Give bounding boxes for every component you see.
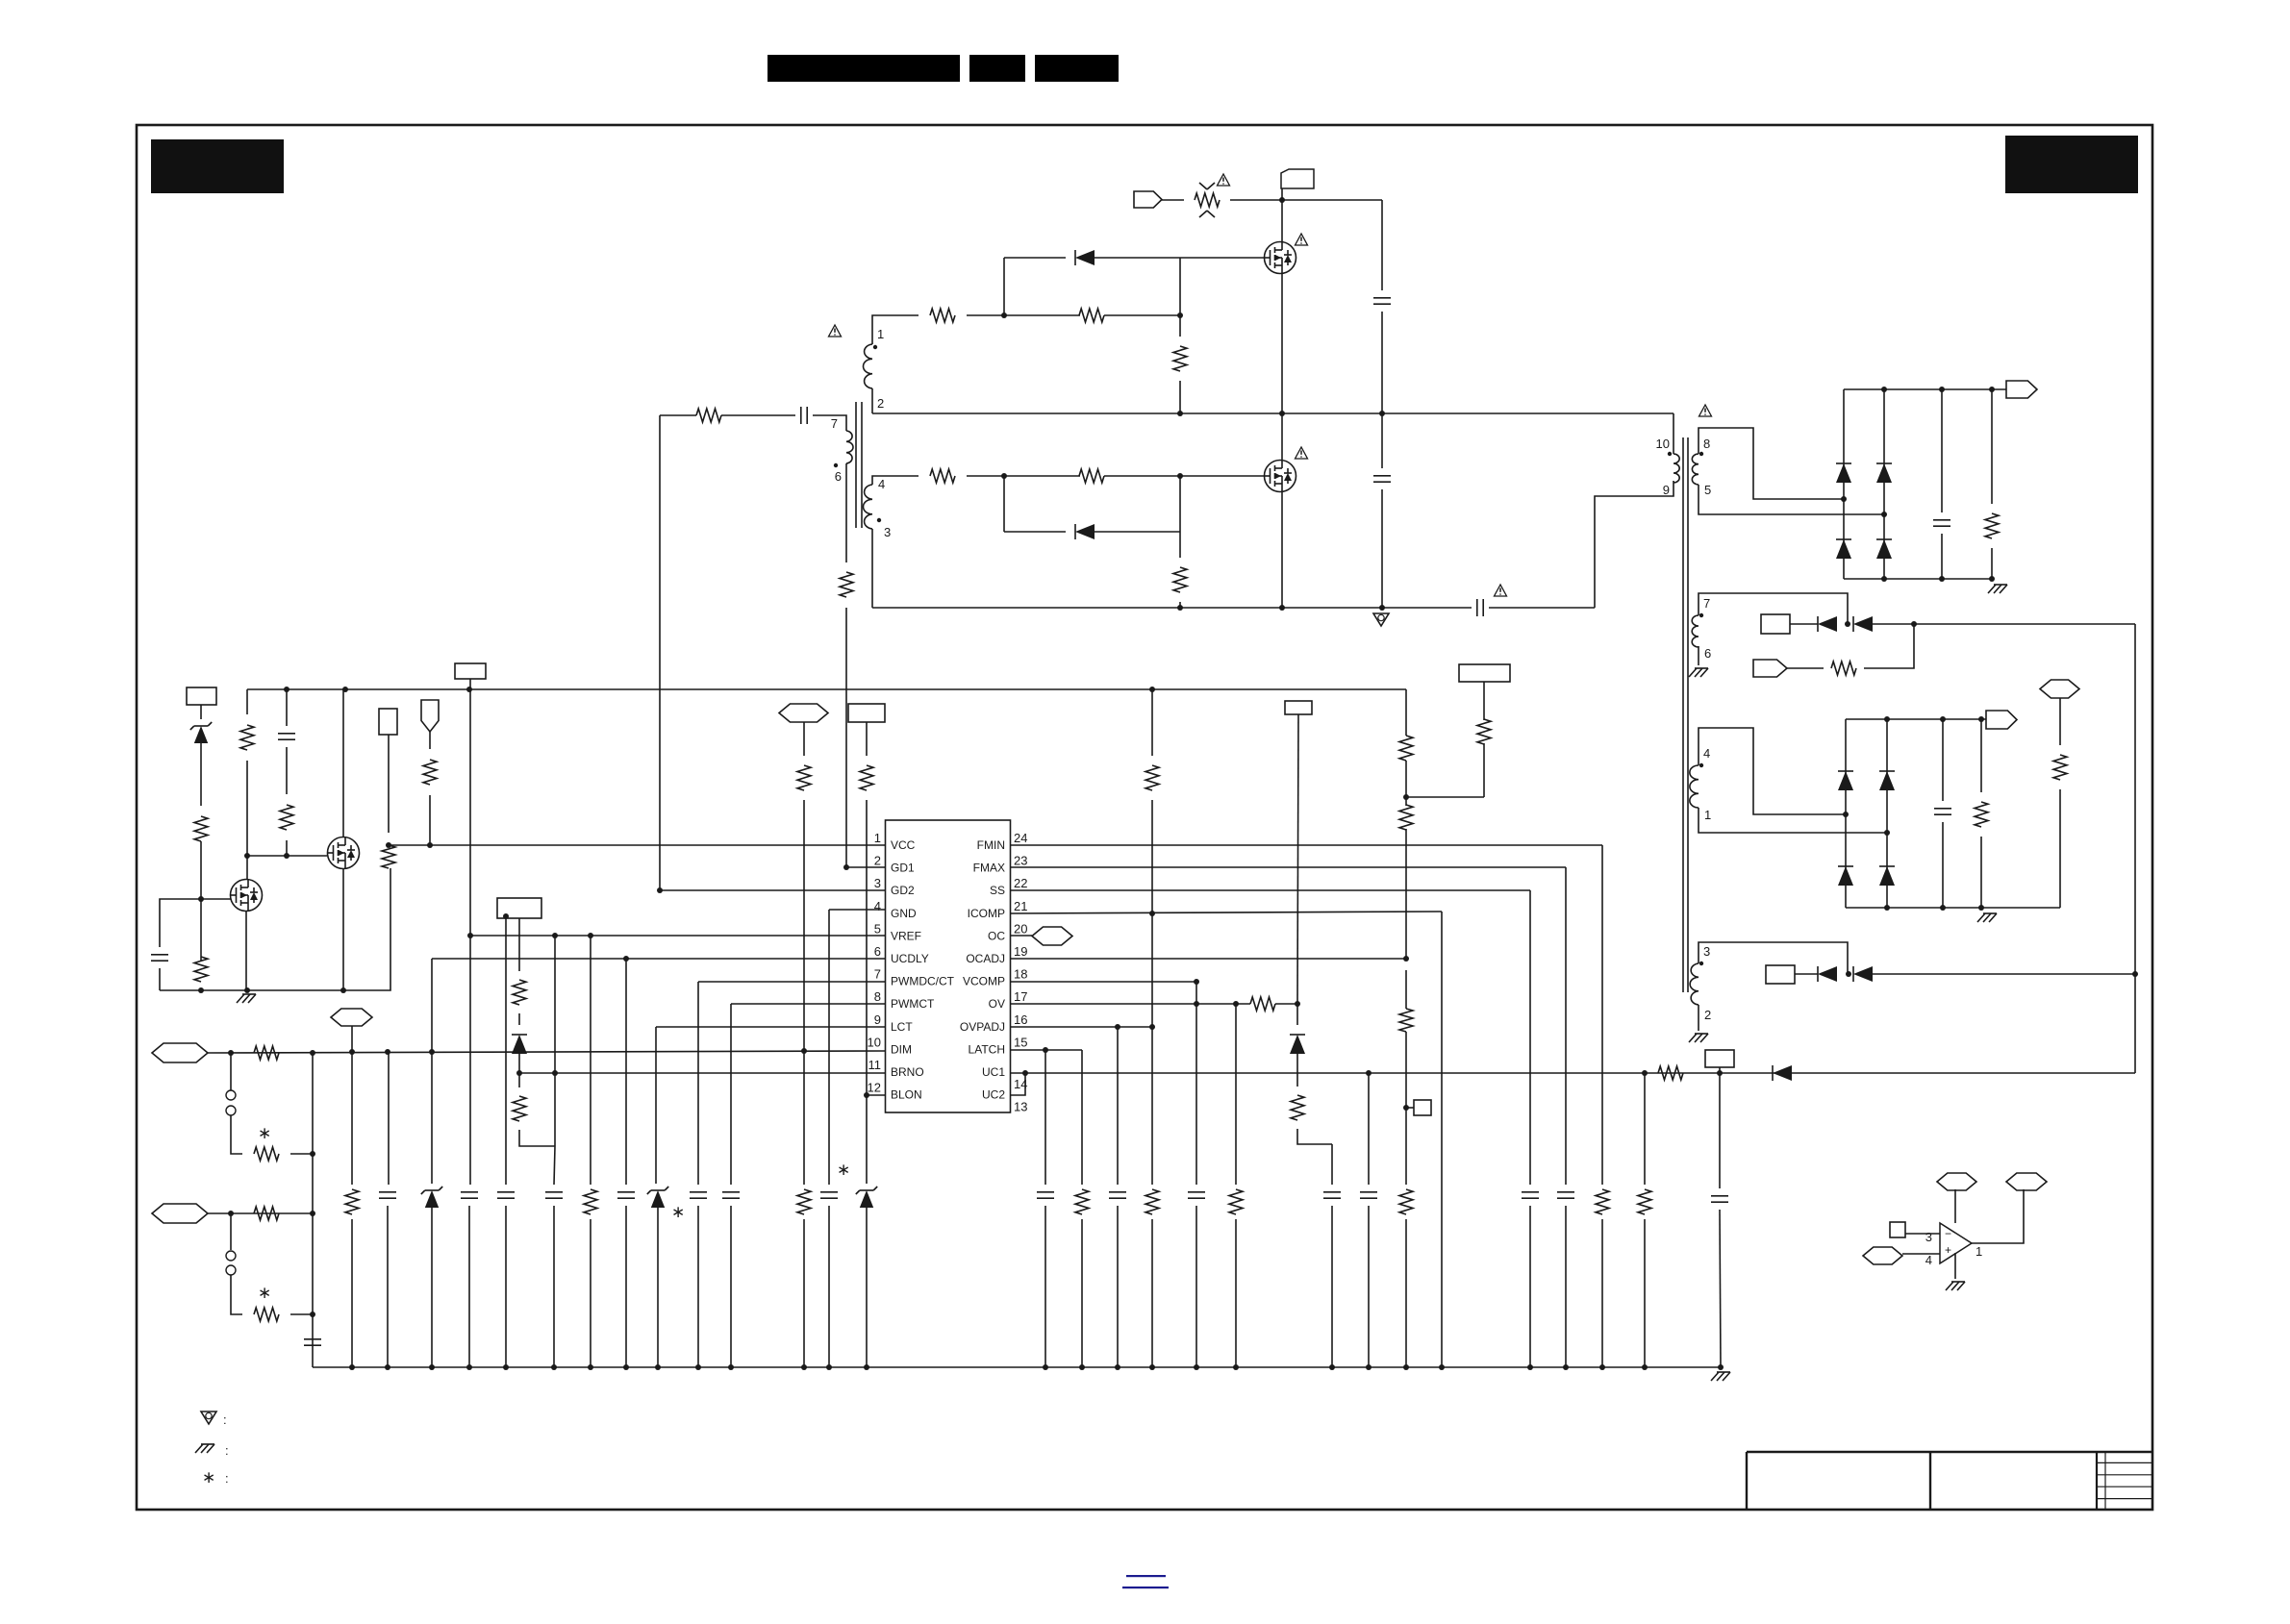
svg-text:4: 4 (1925, 1253, 1932, 1267)
wire Q2 source down (1281, 492, 1283, 608)
revision table (2096, 1452, 2098, 1509)
resistor R col1198 bottom (1151, 1027, 1153, 1185)
svg-text:GD2: GD2 (891, 884, 915, 897)
wire w2 to ground (1698, 1005, 1699, 1031)
wire dim col to R bottom (803, 1051, 805, 1185)
connector box VIN tag (1281, 169, 1314, 188)
svg-text:UCDLY: UCDLY (891, 952, 929, 965)
svg-text:2: 2 (877, 396, 884, 411)
resistor R blon top (860, 765, 873, 790)
capacitor C out2 (1942, 719, 1944, 801)
connector hexagon opamp plus (1863, 1247, 1902, 1264)
wire col1385 (1331, 1144, 1333, 1185)
T2 core (1682, 437, 1684, 992)
connector hexagon vref tag (331, 1009, 372, 1026)
resistor R col403 below vcc row (382, 845, 395, 868)
UC2 jog (1011, 1073, 1025, 1095)
OV row after resistor (1275, 1003, 1297, 1005)
wire opamp plus (1902, 1253, 1940, 1255)
bottom rail of vcc section (160, 868, 390, 990)
wire gate wire to mosfet (1180, 257, 1264, 259)
right feedback bus (2134, 624, 2136, 1073)
resistor R vcc1 (194, 816, 208, 841)
svg-text:LATCH: LATCH (969, 1042, 1005, 1056)
wire Q2 drain up (1281, 413, 1283, 460)
svg-text:BRNO: BRNO (891, 1065, 924, 1079)
svg-text:OCADJ: OCADJ (966, 952, 1005, 965)
svg-text:15: 15 (1014, 1035, 1027, 1049)
svg-text:4: 4 (878, 477, 885, 491)
legend power ground symbol (201, 1412, 216, 1424)
svg-text:GD1: GD1 (891, 862, 915, 875)
resistor R vcc2 (194, 957, 208, 982)
svg-text:VREF: VREF (891, 929, 921, 942)
resistor R dim bottom (797, 1189, 811, 1214)
capacitor C snub2 (1381, 413, 1383, 468)
wire opamp minus (1905, 1233, 1940, 1235)
brno block col540 resistor top (518, 918, 520, 971)
legend chassis ground symbol (195, 1444, 203, 1453)
wire col1423 down (1368, 1073, 1370, 1185)
bridge1 bottom rail (1844, 578, 1992, 580)
svg-text:OV: OV (989, 997, 1005, 1011)
svg-text:LCT: LCT (891, 1020, 913, 1034)
svg-text:∗: ∗ (202, 1468, 215, 1487)
wire T2 pin9 to dc blocking cap (1595, 481, 1673, 608)
resistor R col1710 (1638, 1189, 1651, 1214)
wire resistor up to diode out (1864, 624, 1914, 668)
svg-text:5: 5 (874, 921, 881, 936)
chassis ground opamp (1946, 1282, 1953, 1290)
capacitor C gd series (800, 407, 802, 424)
capacitor C col403 (379, 1191, 396, 1193)
svg-text:10: 10 (1656, 437, 1670, 451)
svg-text:∗: ∗ (837, 1161, 850, 1179)
diode D g1 antiparallel (1004, 257, 1066, 259)
chassis ground vcc section (237, 994, 244, 1003)
redaction bar title 1 (768, 55, 960, 82)
chassis ground at bus end (1711, 1372, 1719, 1381)
warning triangle Q1 (1296, 234, 1308, 245)
SS row (1011, 889, 1530, 891)
wire col1666 down (1601, 845, 1603, 1185)
wire col298 to gate row (286, 840, 288, 856)
svg-text:20: 20 (1014, 921, 1027, 936)
wire col1499 down (1441, 912, 1443, 1367)
resistor R col1462 second (1399, 805, 1413, 830)
capacitor C col1628 (1557, 1191, 1574, 1193)
resistor R col1462 top (1399, 736, 1413, 761)
bridge1 top rail (1844, 388, 2006, 390)
svg-text:7: 7 (874, 967, 881, 982)
chassis ground bridge1 (1988, 585, 1996, 593)
switch contacts 2 (230, 1213, 232, 1250)
svg-text:SS: SS (990, 884, 1005, 897)
title block (1747, 1451, 2152, 1453)
capacitor C col577 (545, 1191, 563, 1193)
svg-text:12: 12 (868, 1081, 881, 1095)
wire GND col down (828, 910, 830, 1185)
svg-text:FMIN: FMIN (977, 838, 1005, 852)
svg-text:BLON: BLON (891, 1088, 922, 1102)
resistor R aux ocp (1477, 719, 1491, 744)
wire vref tag down (351, 1026, 353, 1051)
VREF rail top (247, 688, 1406, 690)
switch contacts 1 (230, 1053, 232, 1090)
aux1 double diode (1790, 623, 1818, 625)
wire sec43 bottom to rail (871, 529, 873, 608)
OV row (1011, 1003, 1250, 1005)
connector box VREF rail tag (455, 663, 486, 679)
connector box aux ocp (1459, 664, 1510, 682)
wire to R* 2 (231, 1275, 242, 1314)
resistor R col1349 (1296, 1054, 1298, 1087)
wire node C down to diode row 2 (1003, 476, 1005, 532)
svg-text:2: 2 (1704, 1008, 1711, 1022)
wire col1125 down (1081, 1050, 1083, 1185)
wire to node C (967, 475, 1080, 477)
capacitor C out1 (1941, 389, 1943, 512)
svg-text:9: 9 (1663, 483, 1670, 497)
resistor R* 1 (254, 1147, 279, 1161)
wire col403 down (388, 735, 390, 833)
capacitor C col1423 (1360, 1191, 1377, 1193)
warning triangle Q2 (1296, 447, 1308, 459)
resistor R pwm2 (254, 1207, 279, 1220)
svg-text:10: 10 (868, 1035, 881, 1049)
wire cap to rail (159, 968, 161, 990)
wire cap to T2 pin9 corner (1489, 607, 1595, 609)
svg-text:VCC: VCC (891, 838, 916, 852)
wire col403 to cap (388, 1052, 390, 1185)
capacitor C col1385 (1323, 1191, 1341, 1193)
wire fuse to node (1230, 199, 1382, 201)
wire opamp gnd (1954, 1253, 1956, 1279)
resistor R col298 (280, 805, 293, 830)
mosfet Q small 1 (231, 880, 263, 912)
resistor R col366 (351, 1051, 353, 1185)
gate row Q2 (247, 855, 327, 857)
drawing frame border (137, 125, 2152, 1510)
svg-text:ICOMP: ICOMP (968, 907, 1005, 920)
connector PWM2 tag (152, 1204, 208, 1223)
svg-text:1: 1 (1975, 1244, 1982, 1259)
connector hexagon sense (2040, 680, 2079, 698)
wire GD2 loop vertical (659, 415, 661, 890)
zener Z col445 (431, 959, 433, 1184)
svg-text:8: 8 (1703, 437, 1710, 451)
wire sec85 top (1699, 428, 1844, 499)
wire col1285 down (1235, 1004, 1237, 1185)
wire PWM2 row (208, 1212, 313, 1214)
svg-text:1: 1 (874, 831, 881, 845)
capacitor on pwm bus column (304, 1338, 321, 1340)
wire to aux box branch (1406, 796, 1484, 798)
svg-text:FMAX: FMAX (973, 862, 1005, 875)
resistor R out2 (1980, 719, 1982, 792)
connector pentagon out2 (1986, 711, 2017, 729)
UCDLY row (432, 958, 885, 960)
wire node to cap column (1381, 200, 1383, 290)
resistor R aux1 (1831, 662, 1856, 675)
wire to gate Q2 (1104, 475, 1264, 477)
bridge2 diodes (1845, 719, 1847, 908)
wire col1710 down (1644, 1073, 1646, 1185)
aux2 double diode (1795, 973, 1818, 975)
connector hexagon dim tag (779, 704, 828, 722)
wire col1162 down (1117, 1027, 1119, 1185)
wire diode row to gate node (1179, 258, 1181, 315)
IC U1 controller (886, 820, 1011, 1112)
connector box opamp minus (1890, 1222, 1905, 1237)
wire box blon to resistor (866, 722, 868, 756)
zener ZD vcc (200, 705, 202, 719)
wire blon col to BLON row (866, 800, 868, 1095)
wire rail to R col257 (246, 689, 248, 714)
svg-text:21: 21 (1014, 899, 1027, 913)
wire VCC row (389, 844, 885, 846)
wire col726 down (697, 982, 699, 1185)
VCOMP row (1011, 981, 1196, 983)
wire PWM1 row (208, 1051, 885, 1053)
mid rail (872, 412, 1673, 414)
svg-text:OC: OC (988, 929, 1005, 942)
wire gd loop top (660, 414, 696, 416)
wire to R* 1 (231, 1115, 242, 1154)
rail corner to OCADJ col (1405, 689, 1407, 736)
resistor R pwm1 (254, 1046, 279, 1060)
FMIN row (1011, 844, 1602, 846)
wire fb cap column (1719, 1073, 1721, 1188)
resistor R col1666 (1596, 1189, 1609, 1214)
wire vs tag stem (1297, 714, 1298, 1004)
diode D g2 (1004, 531, 1066, 533)
svg-text:2: 2 (874, 854, 881, 868)
wire opamp out (1972, 1189, 2024, 1243)
svg-text:∗: ∗ (258, 1124, 271, 1142)
resistor R out1 (1991, 389, 1993, 504)
chassis ground bridge2 (1977, 913, 1985, 922)
resistor R* 2 (254, 1308, 279, 1321)
resistor R g1a (930, 309, 955, 322)
svg-text:22: 22 (1014, 876, 1027, 890)
wire GD2 row (660, 889, 885, 891)
connector hexagon opamp vcc (1937, 1173, 1976, 1190)
OCADJ row (1011, 958, 1406, 960)
wire col650 down (623, 956, 629, 962)
svg-text:1: 1 (877, 327, 884, 341)
wire sec85 bottom (1699, 485, 1884, 514)
wire opamp vcc (1954, 1189, 1956, 1223)
FMAX row (1011, 866, 1566, 868)
svg-text:7: 7 (831, 416, 838, 431)
zener Z lct (651, 1190, 665, 1208)
wire Q1 drain up (1281, 200, 1283, 241)
connector box aux2 (1766, 965, 1795, 984)
connector house tag col447 (421, 700, 439, 732)
svg-text::: : (225, 1471, 229, 1486)
diode D ovp col1349 (1295, 1001, 1300, 1007)
svg-text:6: 6 (1704, 646, 1711, 661)
svg-text:17: 17 (1014, 989, 1027, 1004)
connector pentagon fuse input (1134, 191, 1162, 208)
PWMCT row (731, 1003, 885, 1005)
svg-text:18: 18 (1014, 967, 1027, 982)
wire col1244 down (1195, 982, 1197, 1185)
svg-text:6: 6 (874, 944, 881, 959)
wire R*2 to bus (290, 1313, 313, 1315)
wire diode row2 up (1179, 476, 1181, 532)
redaction bar title 3 (1035, 55, 1119, 82)
svg-text:4: 4 (874, 899, 881, 913)
capacitor C snub1 (1373, 297, 1391, 299)
capacitor C col1162 (1109, 1191, 1126, 1193)
mosfet Q2 main (1265, 461, 1296, 492)
wire VREF col488 down (469, 689, 471, 936)
wire col614 down (588, 933, 593, 938)
OVPADJ row (1011, 1026, 1153, 1028)
wire col1198 to ovpadj (1151, 913, 1153, 1027)
resistor R below T1 (840, 572, 853, 597)
capacitor C col1591 (1522, 1191, 1539, 1193)
svg-text:3: 3 (874, 876, 881, 890)
wire gate branch left (160, 899, 201, 947)
zener Z blon (866, 1095, 868, 1184)
T1 sec12 bottom wire (871, 388, 873, 413)
svg-text:DIM: DIM (891, 1042, 912, 1056)
wire Q1 source down (1281, 274, 1283, 413)
wire w4 up (1699, 728, 1846, 814)
resistor R col1462 bottom (1399, 1189, 1413, 1214)
svg-text:OVPADJ: OVPADJ (960, 1020, 1005, 1034)
wire w3 up to diode row (1699, 942, 1848, 974)
redaction bar title 2 (969, 55, 1025, 82)
svg-text::: : (223, 1412, 227, 1427)
connector hexagon opamp out (2006, 1173, 2047, 1190)
resistor R g1b (1079, 309, 1104, 322)
bottom rail gate section (872, 607, 1472, 609)
black label box top-left (151, 139, 284, 193)
wire col1628 down (1565, 867, 1567, 1185)
T1 core (855, 402, 857, 528)
BLON row (867, 1094, 885, 1096)
svg-text:UC1: UC1 (982, 1065, 1005, 1079)
warning triangle fuse (1218, 174, 1230, 186)
capacitor C vcc gate (151, 954, 168, 956)
wire aux box stem (1483, 682, 1485, 720)
power ground symbol (1373, 613, 1389, 626)
resistor R col1125 (1075, 1189, 1089, 1214)
wire cap to T1 pin7 (813, 415, 846, 431)
wire T1 resistor to GD1 row (845, 608, 847, 867)
wire T1 pin6 down (845, 463, 847, 562)
connector box fb (1705, 1050, 1734, 1067)
wire w7 up to diode row (1699, 593, 1848, 624)
resistor R fb (1658, 1066, 1683, 1080)
svg-text:9: 9 (874, 1012, 881, 1027)
black label box top-right (2005, 136, 2138, 193)
wire node A up to diode row (1003, 258, 1005, 315)
wire tag to rail (469, 679, 471, 689)
svg-text:19: 19 (1014, 944, 1027, 959)
wire col577 (554, 936, 556, 1146)
wire to gate node (200, 841, 202, 962)
svg-text:−: − (1945, 1227, 1951, 1240)
svg-text:VCOMP: VCOMP (963, 975, 1005, 988)
capacitor C col726 (690, 1191, 707, 1193)
svg-text:24: 24 (1014, 831, 1027, 845)
wire Q2 drain to rail (342, 689, 344, 837)
svg-text:GND: GND (891, 907, 917, 920)
svg-text:16: 16 (1014, 1012, 1027, 1027)
wire brno corner (519, 1130, 555, 1146)
svg-text:7: 7 (1703, 596, 1710, 611)
svg-text:4: 4 (1703, 746, 1710, 761)
svg-text:UC2: UC2 (982, 1088, 1005, 1102)
VREF row to IC (470, 935, 885, 937)
wire tag to fusible resistor (1162, 199, 1184, 201)
svg-text:1: 1 (1704, 808, 1711, 822)
connector box vs tag (1285, 701, 1312, 714)
connector pentagon aux1b (1753, 660, 1787, 677)
capacitor C col526 (505, 918, 507, 1185)
LCT row (656, 1026, 885, 1028)
capacitor C col862 (820, 1191, 838, 1193)
wire R*1 to bus (290, 1153, 313, 1155)
resistor R col257 (240, 725, 254, 750)
resistor R col614 (584, 1189, 597, 1214)
wire col1591 down (1529, 890, 1531, 1185)
connector box aux1 (1761, 614, 1790, 634)
svg-text:11: 11 (868, 1058, 882, 1072)
wire col257 down (246, 761, 248, 879)
mosfet Q small 2 (328, 837, 360, 869)
wire icomp col down (1151, 800, 1153, 913)
svg-text:+: + (1945, 1243, 1951, 1257)
wire sec12 top (872, 315, 919, 344)
wire cap1 down to mid rail (1381, 312, 1383, 413)
bridge1 diodes (1843, 389, 1845, 579)
svg-text:3: 3 (1703, 944, 1710, 959)
OC hexagon tag (1011, 935, 1032, 937)
capacitor C dc block (1476, 599, 1478, 616)
resistor R col447 (423, 760, 437, 785)
wire aux1b to resistor (1787, 667, 1824, 669)
mosfet Q1 main (1265, 242, 1296, 274)
svg-text:23: 23 (1014, 854, 1027, 868)
svg-text:13: 13 (1014, 1100, 1027, 1114)
wire hex dim to resistor (803, 722, 805, 756)
wire Q1 gate (201, 898, 231, 900)
wire cap to resistor col298 (286, 747, 288, 794)
svg-text:PWMDC/CT: PWMDC/CT (891, 975, 955, 988)
pulldown resistor R g1c (1179, 315, 1181, 337)
warning triangle T2 (1699, 405, 1712, 416)
pulldown resistor R g2c (1179, 532, 1181, 558)
wire GD1 row (846, 866, 885, 868)
connector box VCC input (187, 687, 216, 705)
capacitor C col760 (722, 1191, 740, 1193)
wire to node A top (967, 314, 1080, 316)
svg-text:8: 8 (874, 989, 881, 1004)
warning triangle dcblock (1495, 585, 1507, 596)
PWMDC row (698, 981, 885, 983)
bridge2 bottom rail (1846, 907, 2060, 909)
capacitor C col487 (469, 936, 471, 1185)
resistor R ocadj col (1399, 1009, 1413, 1032)
resistor R dim top (797, 765, 811, 790)
resistor R sense (2053, 755, 2067, 780)
